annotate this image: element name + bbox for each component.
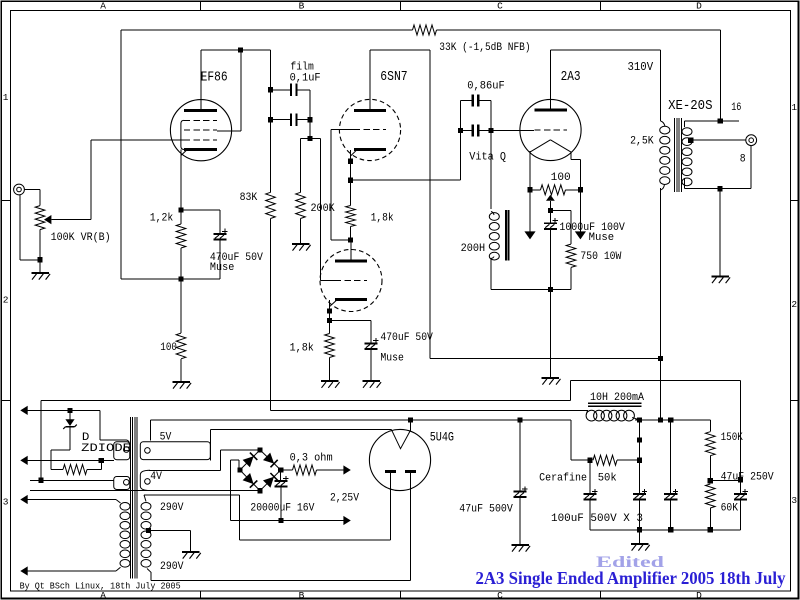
svg-text:Muse: Muse [380, 353, 404, 365]
svg-text:Vita Q: Vita Q [469, 151, 506, 163]
svg-text:B: B [299, 590, 305, 600]
svg-text:47uF 250V: 47uF 250V [721, 472, 774, 484]
svg-text:100: 100 [160, 342, 177, 354]
svg-text:1: 1 [3, 92, 9, 103]
svg-text:47uF 500V: 47uF 500V [459, 504, 513, 516]
svg-text:D: D [696, 1, 702, 12]
svg-text:50k: 50k [598, 472, 617, 484]
svg-text:100: 100 [551, 172, 571, 184]
svg-text:150K: 150K [721, 432, 744, 444]
svg-text:2: 2 [791, 299, 797, 310]
svg-text:1,8k: 1,8k [290, 343, 315, 355]
svg-text:200K: 200K [311, 203, 336, 215]
svg-text:2,5K: 2,5K [630, 136, 654, 148]
svg-text:100uF 500V X 3: 100uF 500V X 3 [551, 513, 643, 525]
svg-text:C: C [497, 1, 503, 12]
svg-text:2A3 Single Ended Amplifier 200: 2A3 Single Ended Amplifier 2005 18th Jul… [476, 568, 786, 588]
svg-text:1,8k: 1,8k [371, 213, 394, 225]
svg-text:83K: 83K [240, 192, 258, 204]
svg-text:1: 1 [791, 102, 797, 113]
svg-text:16: 16 [731, 102, 741, 114]
svg-text:ZDIODE: ZDIODE [81, 443, 131, 455]
svg-text:8: 8 [740, 154, 746, 166]
svg-text:60K: 60K [721, 502, 739, 514]
svg-text:100K VR(B): 100K VR(B) [51, 232, 111, 244]
svg-text:By Qt BSch Linux, 18th July 20: By Qt BSch Linux, 18th July 2005 [20, 582, 181, 592]
svg-text:470uF 50V: 470uF 50V [380, 332, 433, 344]
svg-text:750 10W: 750 10W [580, 251, 621, 263]
svg-text:310V: 310V [628, 61, 654, 74]
svg-text:4V: 4V [150, 471, 162, 483]
svg-text:10H 200mA: 10H 200mA [590, 392, 644, 404]
svg-text:Muse: Muse [589, 232, 615, 244]
svg-text:D: D [696, 590, 702, 600]
svg-text:1,2k: 1,2k [150, 213, 174, 225]
svg-text:5V: 5V [160, 431, 172, 443]
svg-text:20000uF 16V: 20000uF 16V [250, 503, 314, 515]
svg-text:0,1uF: 0,1uF [290, 72, 321, 84]
svg-text:290V: 290V [160, 502, 184, 514]
svg-text:2: 2 [3, 295, 9, 306]
svg-text:EF86: EF86 [201, 69, 228, 85]
svg-text:0,86uF: 0,86uF [467, 81, 504, 93]
svg-text:0,3 ohm: 0,3 ohm [290, 452, 333, 464]
svg-text:3: 3 [3, 497, 9, 508]
svg-text:Muse: Muse [210, 262, 234, 274]
svg-text:5U4G: 5U4G [430, 430, 454, 445]
svg-text:XE-20S: XE-20S [668, 98, 712, 114]
svg-text:33K (-1,5dB NFB): 33K (-1,5dB NFB) [439, 42, 530, 54]
svg-text:290V: 290V [160, 561, 184, 573]
svg-text:C: C [497, 590, 503, 600]
svg-text:3: 3 [791, 495, 797, 506]
svg-text:B: B [299, 1, 305, 12]
svg-text:Cerafine: Cerafine [539, 472, 587, 484]
svg-text:A: A [100, 1, 106, 12]
svg-text:2,25V: 2,25V [330, 493, 359, 505]
svg-text:200H: 200H [461, 243, 486, 255]
svg-text:2A3: 2A3 [561, 69, 581, 85]
svg-text:6SN7: 6SN7 [380, 69, 407, 85]
